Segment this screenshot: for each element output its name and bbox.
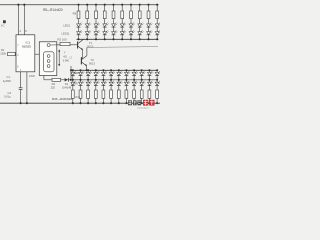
LED D17 (LED17) xyxy=(129,30,135,35)
node bottom rail col 9 xyxy=(147,38,149,40)
IC2 pad 2 xyxy=(47,60,50,63)
wire LED25 to mid rail xyxy=(102,76,104,80)
wire LED7 to LED17 xyxy=(130,27,132,32)
resistor R20 xyxy=(110,90,113,98)
LED D35 (LED35) xyxy=(86,81,92,86)
node pin8 on rail xyxy=(23,4,25,6)
node ground rail col 10 xyxy=(141,102,143,104)
wire R16 to ground rail xyxy=(80,98,82,103)
resistor R8 xyxy=(103,11,106,19)
LED D42 (LED42) xyxy=(140,81,146,86)
wire R9 to LED5 xyxy=(113,19,115,24)
LED D40 (LED40) xyxy=(125,81,131,86)
LED D6 (LED6) xyxy=(120,23,126,28)
wire LED29 to mid rail xyxy=(133,76,135,80)
wire LED36 to R18 xyxy=(95,85,97,90)
node top rail col 4 xyxy=(95,69,97,71)
resistor R25 xyxy=(148,90,151,98)
LED D30 (LED30) xyxy=(140,71,146,76)
resistor R21 xyxy=(117,90,120,98)
node bottom rail col 1 xyxy=(77,38,79,40)
LED D43 (LED43) xyxy=(148,81,154,86)
node ground rail col 7 xyxy=(118,102,120,104)
wire LED23 to mid rail xyxy=(87,76,89,80)
LED D7 (LED7) xyxy=(129,23,135,28)
node rail col R13 xyxy=(147,4,149,6)
LED D2 (LED2) xyxy=(85,23,91,28)
LED D18 (LED18) xyxy=(138,30,144,35)
op-amp/timer U1 IC1 NE555 box xyxy=(16,35,35,72)
node mid rail col 6 xyxy=(110,79,112,81)
wire LED27 to mid rail xyxy=(118,76,120,80)
resistor R9 xyxy=(112,11,115,19)
IC2 pad 1 xyxy=(47,55,50,58)
wire R15 to ground rail xyxy=(72,98,74,103)
resistor R4 xyxy=(52,78,61,81)
node bottom rail col 6 xyxy=(121,38,123,40)
wire LED10 to LED20 xyxy=(156,27,158,32)
wire T2 emitter to rail xyxy=(86,66,88,70)
node mid rail col 9 xyxy=(133,79,135,81)
node top rail col 11 xyxy=(148,69,150,71)
node ground rail col 9 xyxy=(133,102,135,104)
wire LED2 to LED12 xyxy=(86,27,88,32)
wire col 11 to LED31 xyxy=(148,70,150,72)
svg-text:Y: Y xyxy=(64,51,66,55)
resistor R11 xyxy=(130,11,133,19)
wire R11 to LED7 xyxy=(130,19,132,24)
IC2 output pad xyxy=(47,44,50,47)
wire mid rail to LED39 xyxy=(118,80,120,82)
wire R26 to ground rail xyxy=(156,98,158,103)
node top rail col 12 xyxy=(156,69,158,71)
wire col 4 to LED24 xyxy=(95,70,97,72)
LED D41 (LED41) xyxy=(132,81,138,86)
resistor R1 xyxy=(8,52,16,55)
resistor R16 xyxy=(79,90,82,98)
wire LED20 to bottom rail xyxy=(156,35,158,40)
wire mid rail to LED40 xyxy=(125,80,127,82)
svg-text:R1: R1 xyxy=(1,48,5,52)
node top rail col 8 xyxy=(125,69,127,71)
node rail col R6 xyxy=(86,4,88,6)
LED D9 (LED9) xyxy=(147,23,153,28)
resistor R14 xyxy=(156,11,159,19)
LED D27 (LED27) xyxy=(117,71,123,76)
wire to R4 xyxy=(44,79,52,81)
wire col 10 to LED30 xyxy=(141,70,143,72)
wire R6 to LED2 xyxy=(86,19,88,24)
wire R24 to ground rail xyxy=(141,98,143,103)
node mid rail col 7 xyxy=(118,79,120,81)
LED D31 (LED31) xyxy=(148,71,154,76)
wire mid rail to LED44 xyxy=(156,80,158,82)
diode D1 1N4148 xyxy=(65,78,69,82)
node top rail col 1 xyxy=(72,69,74,71)
LED D33 (LED33) xyxy=(71,81,77,86)
node bottom rail col 4 xyxy=(104,38,106,40)
resistor R7 xyxy=(95,11,98,19)
wire LED39 to R21 xyxy=(118,85,120,90)
wire LED13 to bottom rail xyxy=(95,35,97,40)
wire R11 top lead xyxy=(130,5,132,11)
node mid rail col 3 xyxy=(87,79,89,81)
wire LED9 to LED19 xyxy=(148,27,150,32)
wire LED19 to bottom rail xyxy=(148,35,150,40)
LED D12 (LED12) xyxy=(85,30,91,35)
svg-text:LED11: LED11 xyxy=(62,31,71,35)
LED D1 (LED1) xyxy=(77,23,83,28)
svg-text:C3: C3 xyxy=(8,91,12,95)
wire R6 top lead xyxy=(86,5,88,11)
node mid rail col 12 xyxy=(156,79,158,81)
svg-text:R2 100: R2 100 xyxy=(58,37,67,41)
LED D5 (LED5) xyxy=(112,23,118,28)
wire R5 top lead xyxy=(78,5,80,11)
wire col 8 to LED28 xyxy=(125,70,127,72)
wire mid rail to LED33 xyxy=(72,80,74,82)
LED D22 (LED22) xyxy=(79,71,85,76)
node mid rail col 2 xyxy=(79,79,81,81)
wire LED3 to LED13 xyxy=(95,27,97,32)
wire R14 top lead xyxy=(156,5,158,11)
wire LED12 to bottom rail xyxy=(86,35,88,40)
LED D38 (LED38) xyxy=(109,81,115,86)
node C1 ground xyxy=(20,102,22,104)
node rail col R12 xyxy=(139,4,141,6)
svg-text:LED1: LED1 xyxy=(63,24,70,28)
wire LED21 to mid rail xyxy=(72,76,74,80)
node rail col R9 xyxy=(112,4,114,6)
LED D10 (LED10) xyxy=(155,23,161,28)
LED D37 (LED37) xyxy=(102,81,108,86)
LED D16 (LED16) xyxy=(120,30,126,35)
svg-text:R15—R26=620: R15—R26=620 xyxy=(52,97,72,101)
wire R2 to T1 base xyxy=(70,44,77,46)
wire pin8 drop xyxy=(23,5,25,35)
node mid rail col 11 xyxy=(148,79,150,81)
wire R25 to ground rail xyxy=(148,98,150,103)
node ground rail col 8 xyxy=(125,102,127,104)
wire LED16 to bottom rail xyxy=(121,35,123,40)
wire col 3 to LED23 xyxy=(87,70,89,72)
resistor R26 xyxy=(156,90,159,98)
wire R14 to LED10 xyxy=(156,19,158,24)
wire col 5 to LED25 xyxy=(102,70,104,72)
AC input terminal xyxy=(3,20,6,23)
svg-text:4Ω: 4Ω xyxy=(63,55,66,59)
node mid rail col 4 xyxy=(95,79,97,81)
node mid rail col 5 xyxy=(102,79,104,81)
svg-text:220: 220 xyxy=(51,85,56,89)
svg-text:GND: GND xyxy=(29,74,35,78)
node rail col R10 xyxy=(121,4,123,6)
wire LED43 to R25 xyxy=(148,85,150,90)
IC2 pad 3 xyxy=(47,65,50,68)
LED D19 (LED19) xyxy=(147,30,153,35)
wire T1 emitter down xyxy=(82,50,84,58)
wire LED17 to bottom rail xyxy=(130,35,132,40)
wire mid rail to LED34 xyxy=(80,80,82,82)
wire R7 top lead xyxy=(95,5,97,11)
wire R1 to pin2 xyxy=(14,53,17,55)
resistor R6 xyxy=(86,11,89,19)
wire pin3 to IC2 xyxy=(35,53,40,55)
node top rail col 3 xyxy=(87,69,89,71)
wire col 1 to LED21 xyxy=(72,70,74,72)
IC2 inner COB board xyxy=(44,52,54,72)
wire col 6 to LED26 xyxy=(110,70,112,72)
svg-text:C1: C1 xyxy=(7,75,11,79)
IC U2 music module box xyxy=(39,42,57,76)
LED D21 (LED21) xyxy=(71,71,77,76)
wire T2 collector up xyxy=(86,47,88,55)
node bottom rail col 10 xyxy=(156,38,158,40)
wire C1 to ground rail xyxy=(20,90,22,104)
node mid rail col 10 xyxy=(141,79,143,81)
wire to T2 base xyxy=(81,58,82,61)
wire LED38 to R20 xyxy=(110,85,112,90)
wire LED34 to R16 xyxy=(80,85,82,90)
svg-text:9013: 9013 xyxy=(87,45,93,49)
wire top V+ rail xyxy=(0,4,159,6)
node top rail col 7 xyxy=(118,69,120,71)
svg-text:0.01μ: 0.01μ xyxy=(4,95,11,99)
resistor R24 xyxy=(140,90,143,98)
node ground rail col 11 xyxy=(148,102,150,104)
wire R5 to LED1 xyxy=(78,19,80,24)
LED D25 (LED25) xyxy=(102,71,108,76)
LED D44 (LED44) xyxy=(155,81,161,86)
wire R10 to LED6 xyxy=(121,19,123,24)
svg-text:1N4148: 1N4148 xyxy=(62,85,72,89)
LED D14 (LED14) xyxy=(103,30,109,35)
resistor R2 xyxy=(60,42,70,45)
LED D3 (LED3) xyxy=(94,23,100,28)
node top rail col 5 xyxy=(102,69,104,71)
wire LED5 to LED15 xyxy=(113,27,115,32)
resistor R18 xyxy=(94,90,97,98)
wire LED4 to LED14 xyxy=(104,27,106,32)
wire left end riser xyxy=(70,66,72,80)
wire bottom block mid rail xyxy=(71,79,158,81)
LED D15 (LED15) xyxy=(112,30,118,35)
wire long feed xyxy=(87,46,158,49)
wire mid rail to LED36 xyxy=(95,80,97,82)
wire R19 to ground rail xyxy=(102,98,104,103)
wire R8 to LED4 xyxy=(104,19,106,24)
wire pin4 drop xyxy=(17,5,19,35)
wire IC2 bottom pin xyxy=(43,76,45,80)
resistor R12 xyxy=(138,11,141,19)
node ground rail col 5 xyxy=(102,102,104,104)
svg-text:T1: T1 xyxy=(89,41,93,45)
node rail col R11 xyxy=(130,4,132,6)
wire LED32 to mid rail xyxy=(156,76,158,80)
LED D29 (LED29) xyxy=(132,71,138,76)
wire LED8 to LED18 xyxy=(139,27,141,32)
svg-text:AC: AC xyxy=(1,23,5,27)
wire LED44 to R26 xyxy=(156,85,158,90)
resistor R10 xyxy=(121,11,124,19)
wire R23 to ground rail xyxy=(133,98,135,103)
node ground rail col 1 xyxy=(72,102,74,104)
wire R12 to LED8 xyxy=(139,19,141,24)
svg-text:9013: 9013 xyxy=(89,61,95,65)
transistor Q1 T1 9013 xyxy=(78,39,84,50)
node bottom rail col 3 xyxy=(95,38,97,40)
wire LED28 to mid rail xyxy=(125,76,127,80)
wire LED42 to R24 xyxy=(141,85,143,90)
node bottom rail col 8 xyxy=(139,38,141,40)
node bottom rail col 2 xyxy=(86,38,88,40)
resistor R13 xyxy=(147,11,150,19)
wire LED24 to mid rail xyxy=(95,76,97,80)
LED D8 (LED8) xyxy=(138,23,144,28)
node rail col R7 xyxy=(95,4,97,6)
capacitor C1 plates xyxy=(19,87,23,89)
watermark dark glyph 3 xyxy=(137,100,141,105)
wire col 2 to LED22 xyxy=(80,70,82,72)
watermark dark glyph 1 xyxy=(128,100,132,105)
wire mid rail to LED38 xyxy=(110,80,112,82)
speaker Y double-arrow xyxy=(58,49,60,66)
resistor R22 xyxy=(125,90,128,98)
wire LED18 to bottom rail xyxy=(139,35,141,40)
wire col 12 to LED32 xyxy=(156,70,158,72)
node bottom rail col 7 xyxy=(130,38,132,40)
wire R20 to ground rail xyxy=(110,98,112,103)
LED D11 (LED11) xyxy=(77,30,83,35)
wire LED14 to bottom rail xyxy=(104,35,106,40)
LED D24 (LED24) xyxy=(94,71,100,76)
node pin4 on rail xyxy=(17,4,19,6)
wire R13 top lead xyxy=(148,5,150,11)
wire R17 to ground rail xyxy=(87,98,89,103)
watermark dark glyph 2 xyxy=(133,100,137,105)
wire LED6 to LED16 xyxy=(121,27,123,32)
wire LED35 to R17 xyxy=(87,85,89,90)
wire LED37 to R19 xyxy=(102,85,104,90)
wire R21 to ground rail xyxy=(118,98,120,103)
wire mid rail to LED35 xyxy=(87,80,89,82)
LED D28 (LED28) xyxy=(125,71,131,76)
node mid rail col 1 xyxy=(72,79,74,81)
node rail col R8 xyxy=(104,4,106,6)
wire pin1 to C1 xyxy=(20,72,22,88)
wire R7 to LED3 xyxy=(95,19,97,24)
node ground rail col 2 xyxy=(79,102,81,104)
node rail col R5 xyxy=(77,4,79,6)
LED D20 (LED20) xyxy=(155,30,161,35)
wire LED11 to bottom rail xyxy=(78,35,80,40)
node top rail col 10 xyxy=(141,69,143,71)
resistor R23 xyxy=(133,90,136,98)
resistor R19 xyxy=(102,90,105,98)
LED D36 (LED36) xyxy=(94,81,100,86)
watermark red glyph 2 xyxy=(149,100,154,106)
svg-text:1μ/50V: 1μ/50V xyxy=(3,79,12,83)
wire R4 to D1 xyxy=(61,79,65,81)
wire R13 to LED9 xyxy=(148,19,150,24)
wire mid rail to LED42 xyxy=(141,80,143,82)
wire LED30 to mid rail xyxy=(141,76,143,80)
wire R8 top lead xyxy=(104,5,106,11)
wire LED1 to LED11 xyxy=(78,27,80,32)
wire top block bottom rail xyxy=(77,38,159,40)
svg-text:150k: 150k xyxy=(0,52,6,56)
wire mid rail to LED43 xyxy=(148,80,150,82)
wire LED26 to mid rail xyxy=(110,76,112,80)
wire LED33 to R15 xyxy=(72,85,74,90)
LED D32 (LED32) xyxy=(155,71,161,76)
node ground rail col 12 xyxy=(156,102,158,104)
resistor R15 xyxy=(71,90,74,98)
wire ground rail xyxy=(0,102,160,104)
wire GND pin to ground rail xyxy=(26,72,28,103)
wire mid rail to LED37 xyxy=(102,80,104,82)
wire R10 top lead xyxy=(121,5,123,11)
transistor Q2 T2 9013 xyxy=(81,56,87,67)
wire D1 to mid rail xyxy=(68,79,70,81)
wire LED31 to mid rail xyxy=(148,76,150,80)
wire col 9 to LED29 xyxy=(133,70,135,72)
wire pad to R2 xyxy=(50,44,60,46)
wire mid rail to LED41 xyxy=(133,80,135,82)
svg-text:R5: R5 xyxy=(73,12,77,16)
node bottom rail col 5 xyxy=(112,38,114,40)
node ground rail col 3 xyxy=(87,102,89,104)
wire R18 to ground rail xyxy=(95,98,97,103)
resistor R5 xyxy=(77,11,80,19)
svg-text:R15: R15 xyxy=(75,96,80,99)
wire R22 to ground rail xyxy=(125,98,127,103)
svg-text:T2: T2 xyxy=(91,58,95,62)
wire LED40 to R22 xyxy=(125,85,127,90)
node riser on top rail xyxy=(70,69,72,71)
node top rail col 9 xyxy=(133,69,135,71)
node rail col R14 xyxy=(156,4,158,6)
LED D4 (LED4) xyxy=(103,23,109,28)
node GND pin ground xyxy=(26,102,28,104)
svg-text:NE555: NE555 xyxy=(22,44,32,48)
wire col 7 to LED27 xyxy=(118,70,120,72)
node T2 emitter junction xyxy=(86,69,88,71)
LED D39 (LED39) xyxy=(117,81,123,86)
svg-text:www.dz-diy.com: www.dz-diy.com xyxy=(137,107,150,109)
wire R12 top lead xyxy=(139,5,141,11)
node top rail col 6 xyxy=(110,69,112,71)
wire LED41 to R23 xyxy=(133,85,135,90)
node mid rail col 8 xyxy=(125,79,127,81)
LED D23 (LED23) xyxy=(86,71,92,76)
wire bottom block top rail xyxy=(71,69,158,71)
wire R9 top lead xyxy=(113,5,115,11)
node top rail col 2 xyxy=(79,69,81,71)
LED D13 (LED13) xyxy=(94,30,100,35)
wire LED22 to mid rail xyxy=(80,76,82,80)
LED D26 (LED26) xyxy=(109,71,115,76)
node ground rail col 4 xyxy=(95,102,97,104)
wire LED15 to bottom rail xyxy=(113,35,115,40)
watermark red glyph 1 xyxy=(143,100,148,106)
node D1 junction xyxy=(70,79,72,81)
LED D34 (LED34) xyxy=(79,81,85,86)
node ground rail col 6 xyxy=(110,102,112,104)
svg-text:R5—R14=620: R5—R14=620 xyxy=(43,8,63,12)
resistor R17 xyxy=(87,90,90,98)
